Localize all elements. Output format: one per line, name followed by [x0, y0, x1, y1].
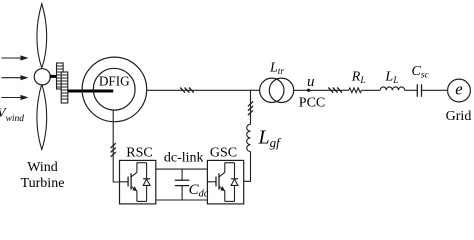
three-phase marker rotor: [111, 143, 116, 157]
svg-text:e: e: [455, 80, 462, 99]
DFIG outer circle: [82, 57, 147, 122]
transformer Ltr circle 1: [260, 78, 284, 102]
resistor RL: [349, 88, 362, 93]
wire RL to LL: [361, 89, 380, 91]
svg-text:Lgf: Lgf: [258, 127, 283, 151]
gearbox gear 2: [61, 72, 68, 103]
svg-text:Csc: Csc: [412, 64, 430, 81]
wire transformer to PCC: [294, 89, 349, 91]
dc bus top: [156, 168, 208, 170]
DFIG inner circle: [93, 68, 135, 110]
svg-text:u: u: [307, 74, 315, 90]
svg-text:dc-link: dc-link: [164, 151, 204, 166]
wire Csc to grid: [422, 89, 448, 91]
RSC box: [120, 160, 156, 204]
IGBT cell in GSC: [207, 163, 238, 202]
svg-text:Vwind: Vwind: [0, 106, 24, 124]
IGBT cell in RSC: [120, 163, 151, 202]
node u dot: [307, 89, 310, 92]
svg-text:RSC: RSC: [126, 145, 152, 160]
inductor LL: [380, 87, 404, 90]
svg-text:RL: RL: [351, 70, 366, 87]
wind arrow 1: [2, 55, 29, 60]
wind arrow 3: [2, 95, 29, 100]
turbine blade top: [37, 4, 47, 68]
three-phase marker gsc branch: [248, 102, 253, 116]
gearbox gear 1: [57, 63, 64, 89]
svg-text:PCC: PCC: [299, 95, 325, 110]
grid source circle: [448, 79, 471, 102]
GSC box: [207, 160, 243, 204]
transformer Ltr circle 2: [269, 78, 293, 102]
svg-text:Wind: Wind: [27, 160, 58, 175]
svg-text:LL: LL: [384, 69, 398, 86]
turbine blade bottom: [37, 84, 47, 149]
low-speed shaft: [50, 75, 58, 78]
svg-text:Grid: Grid: [446, 109, 472, 124]
wind arrow 2: [2, 75, 29, 80]
svg-text:GSC: GSC: [210, 145, 237, 160]
stator wire: [147, 89, 260, 91]
svg-text:Ltr: Ltr: [269, 60, 284, 77]
turbine hub: [34, 69, 50, 85]
wire LL to Csc: [405, 89, 418, 91]
rotor wire: [113, 110, 119, 182]
dc bus bottom: [156, 199, 208, 201]
dc-link capacitor Cdc: [175, 169, 190, 200]
capacitor Csc: [417, 84, 421, 97]
three-phase marker line: [328, 88, 342, 93]
inductor Lgf: [247, 124, 251, 151]
high-speed shaft: [68, 90, 113, 93]
grid-side branch wire down: [250, 90, 252, 124]
three-phase marker stator: [180, 88, 194, 93]
svg-text:DFIG: DFIG: [99, 74, 130, 89]
svg-text:Cdc: Cdc: [189, 182, 209, 200]
wire Lgf to GSC: [244, 152, 251, 182]
svg-text:Turbine: Turbine: [21, 176, 65, 191]
